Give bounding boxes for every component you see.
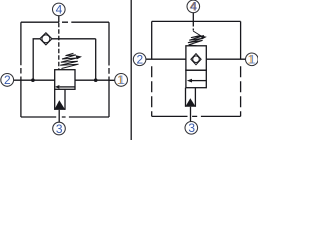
valve envelope left schematic right edge [108, 22, 110, 117]
port 4 stub right [192, 13, 194, 22]
box2 arrow line [191, 80, 207, 82]
junction node A [31, 78, 35, 82]
top rail [152, 20, 241, 22]
right loop dashed drain [240, 66, 242, 116]
tank stub to port3 [58, 110, 60, 122]
body flow arrow line [60, 86, 76, 88]
port 2 circle right [133, 53, 146, 66]
svg-text:4: 4 [191, 0, 198, 14]
funnel seat right [186, 88, 196, 107]
check diamond in box1 [191, 54, 201, 65]
body flow arrowhead [55, 85, 60, 89]
left loop solid [151, 21, 153, 59]
port 4 circle left [53, 3, 66, 16]
spring left (adjustable) [60, 53, 78, 68]
panel divider [130, 0, 132, 140]
check ball in box1 [193, 56, 200, 63]
port 1 circle right [246, 53, 259, 66]
svg-text:2: 2 [4, 73, 11, 87]
valve envelope left schematic top edge [21, 21, 109, 23]
relief seat triangle left [54, 100, 65, 110]
wire from check valve to right branch [52, 39, 96, 80]
relief seat triangle right [185, 98, 195, 106]
pilot vent dashed line from port 4 [58, 23, 60, 70]
port 3 circle right [185, 122, 198, 135]
port 4 stub left [58, 16, 60, 23]
check valve C1 ball [42, 35, 50, 43]
check valve branch wire [33, 39, 40, 80]
junction node B [94, 78, 98, 82]
box2 [186, 70, 206, 88]
bottom rail [152, 115, 241, 117]
main line right [146, 58, 246, 60]
right loop solid [240, 21, 242, 59]
main line port2 to body [14, 79, 55, 81]
port 3 circle left [53, 122, 66, 135]
svg-text:4: 4 [56, 3, 63, 17]
left loop dashed drain [151, 66, 153, 116]
dashed vent right [192, 22, 194, 31]
spring arrowhead [76, 55, 82, 59]
svg-text:3: 3 [188, 121, 195, 135]
svg-text:3: 3 [56, 122, 63, 136]
port 1 circle left [115, 74, 128, 87]
valve envelope left schematic left edge [20, 22, 22, 117]
main line body to port1 [75, 79, 115, 81]
relief valve box1 [186, 46, 206, 70]
check valve C1 diamond [40, 33, 52, 45]
box2 arrowhead [187, 79, 192, 83]
svg-text:1: 1 [118, 73, 125, 87]
svg-text:1: 1 [249, 53, 256, 67]
tank stub right [190, 107, 192, 122]
port labels left schematic [4, 3, 125, 136]
valve envelope left schematic bottom edge [21, 116, 109, 118]
spring arrowhead right [201, 35, 207, 39]
port 2 circle left [1, 74, 14, 87]
relief main stage body [55, 70, 75, 90]
spring right (adjustable) [188, 31, 204, 46]
port labels right schematic [136, 0, 256, 135]
port 4 circle right [187, 0, 200, 13]
svg-text:2: 2 [136, 53, 143, 67]
funnel seat left [55, 89, 65, 110]
